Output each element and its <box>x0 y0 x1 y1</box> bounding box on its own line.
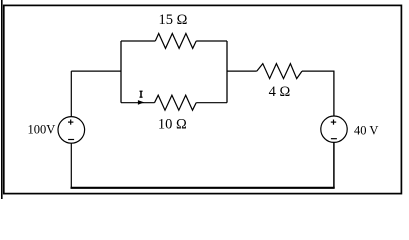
voltage source V1 100V circle <box>58 117 85 144</box>
label I <box>140 91 143 97</box>
wire: mid-left feed <box>71 70 121 72</box>
outer border left line <box>1 0 3 199</box>
svg-text:40 V: 40 V <box>354 123 378 137</box>
svg-text:4 Ω: 4 Ω <box>269 84 291 100</box>
resistor R1 15 ohm <box>155 34 196 49</box>
wire: R3 to right corner <box>302 70 335 72</box>
V2 plus sign <box>331 121 336 123</box>
wire: top branch left lead <box>121 40 155 42</box>
voltage source V2 40V circle <box>321 116 347 142</box>
current arrow I <box>138 100 144 105</box>
wire: bottom return <box>71 187 335 189</box>
resistor R3 4 ohm <box>257 64 302 79</box>
V1 minus sign <box>68 139 74 141</box>
svg-text:15 Ω: 15 Ω <box>159 12 188 28</box>
wire: left vertical upper <box>70 71 72 117</box>
wire: bottom branch left lead <box>121 102 155 104</box>
resistor R2 10 ohm <box>155 95 197 110</box>
wire: top branch right lead <box>196 40 227 42</box>
wire: left vertical lower <box>70 143 72 188</box>
wire: mid-right feed to R3 <box>227 70 257 72</box>
svg-text:10 Ω: 10 Ω <box>158 117 187 133</box>
svg-text:100V: 100V <box>28 122 56 136</box>
V1 plus sign <box>68 121 73 123</box>
wire: parallel right rail <box>226 41 228 103</box>
V2 minus sign <box>331 138 337 140</box>
border frame <box>4 5 402 193</box>
wire: bottom branch right lead <box>196 102 227 104</box>
wire: right vertical upper <box>333 71 335 116</box>
wire: parallel left rail <box>120 41 122 103</box>
wire: right vertical lower <box>333 142 335 188</box>
